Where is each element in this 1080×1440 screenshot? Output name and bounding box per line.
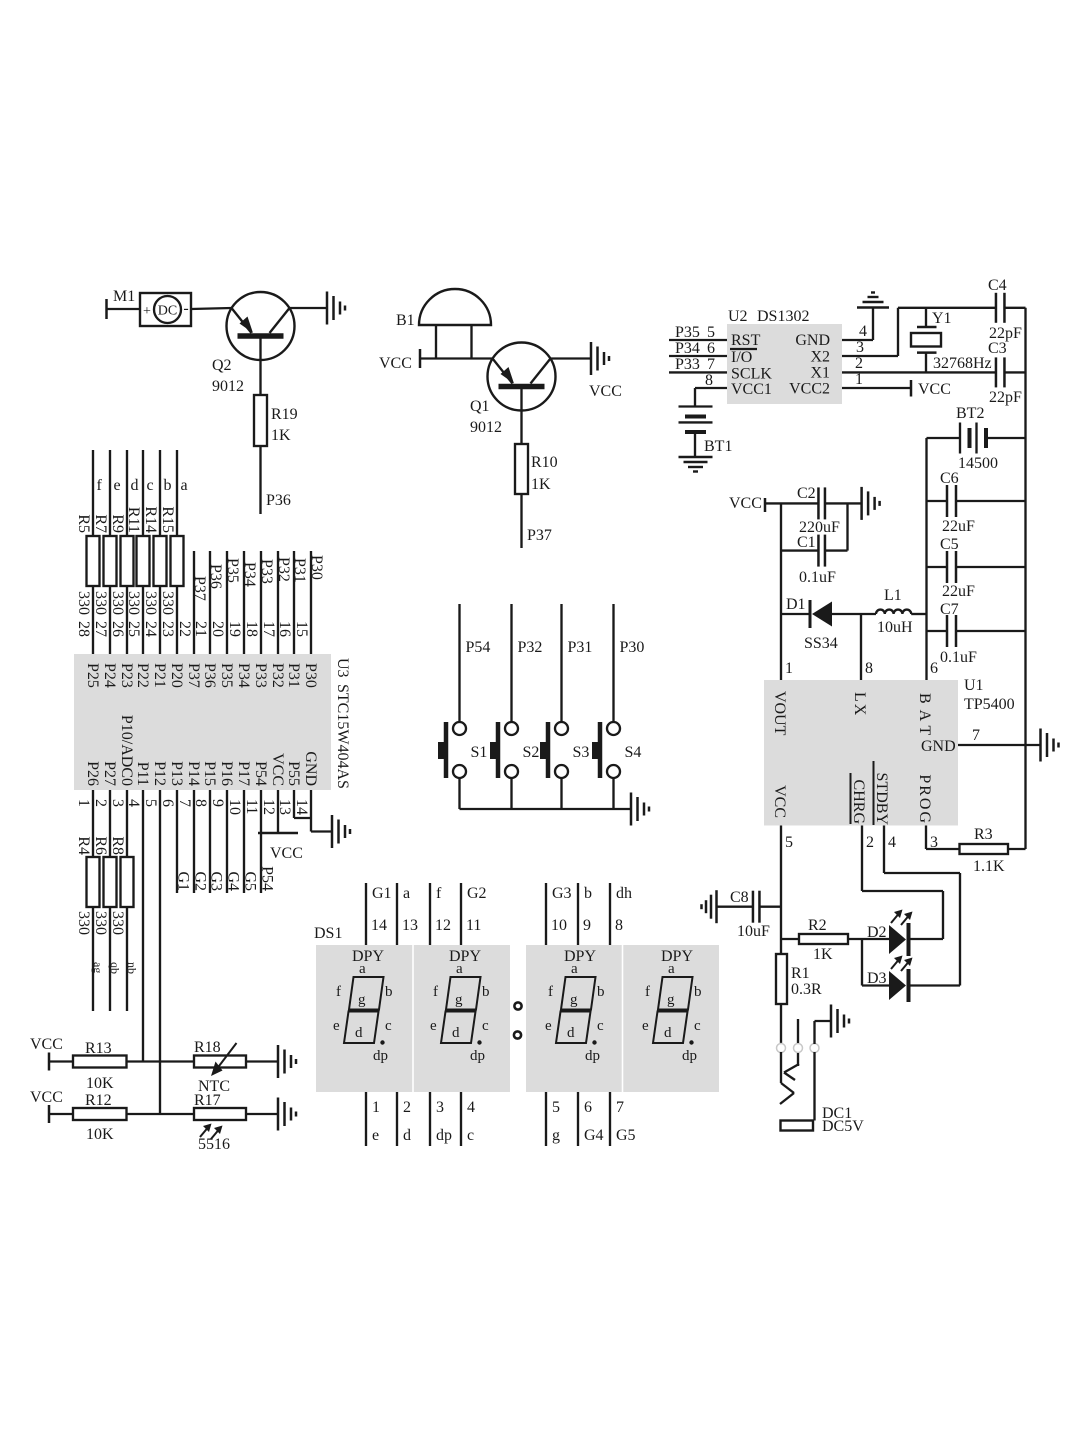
capacitor C6 22uF	[927, 470, 1026, 535]
U3 top pin 18 label P33	[243, 621, 269, 688]
svg-text:g: g	[455, 992, 463, 1008]
DC jack DC1 DC5V	[777, 1019, 865, 1135]
svg-text:VCC: VCC	[771, 785, 788, 818]
svg-text:G4: G4	[584, 1127, 604, 1144]
svg-text:R19: R19	[271, 406, 298, 423]
resistor R11 330 (segment c)	[125, 450, 154, 654]
svg-text:d: d	[131, 477, 139, 494]
svg-text:R6: R6	[92, 836, 109, 855]
VCC terminal pin 12	[258, 790, 303, 862]
resistor R7 330 (segment e)	[92, 450, 121, 654]
svg-text:28: 28	[75, 621, 92, 637]
motor M1	[107, 288, 192, 326]
svg-text:330: 330	[92, 911, 109, 935]
wire	[510, 777, 512, 809]
wire LX	[860, 614, 862, 680]
svg-text:6: 6	[930, 660, 938, 677]
svg-text:10K: 10K	[86, 1075, 114, 1092]
svg-text:STDBY: STDBY	[873, 773, 890, 826]
U3 top pin 21 label P36	[192, 621, 218, 688]
svg-text:G5: G5	[616, 1127, 636, 1144]
svg-text:BT2: BT2	[956, 405, 984, 422]
capacitor C5 22uF	[927, 536, 1026, 600]
svg-text:B1: B1	[396, 312, 415, 329]
svg-text:18: 18	[243, 621, 260, 637]
LED D2	[867, 910, 913, 957]
svg-text:330: 330	[92, 591, 109, 615]
svg-text:15: 15	[293, 621, 310, 637]
7-segment digit DPY4	[642, 948, 702, 1064]
svg-text:14: 14	[293, 799, 310, 815]
svg-text:11: 11	[243, 799, 260, 814]
VCC terminal	[30, 1089, 73, 1123]
ground	[290, 292, 346, 325]
svg-text:9012: 9012	[212, 378, 244, 395]
svg-text:P34: P34	[241, 562, 258, 587]
svg-text:VCC2: VCC2	[789, 381, 830, 398]
svg-text:P33: P33	[252, 663, 269, 688]
svg-text:9: 9	[209, 799, 226, 807]
transistor Q1	[470, 343, 556, 437]
svg-text:P33: P33	[258, 559, 275, 584]
wire pin 14	[311, 790, 332, 832]
7-segment digit DPY3	[545, 948, 605, 1064]
svg-text:P20: P20	[168, 663, 185, 688]
svg-text:M1: M1	[113, 288, 135, 305]
U3 top pin 23 label P20	[159, 621, 185, 688]
svg-text:4: 4	[859, 323, 867, 340]
svg-text:P54: P54	[466, 639, 491, 656]
svg-text:VCC1: VCC1	[731, 381, 772, 398]
colon dot lower	[514, 1031, 521, 1038]
svg-text:2: 2	[403, 1099, 411, 1116]
U3 top pin 24 label P21	[142, 621, 168, 688]
ground	[277, 1098, 280, 1131]
crystal Y1 32768Hz	[911, 308, 992, 373]
pin 5 RST net P35	[669, 324, 727, 341]
pin 5 VCC wire	[781, 826, 793, 955]
svg-text:a: a	[456, 961, 463, 977]
wire net P54	[460, 604, 491, 723]
svg-text:P55: P55	[285, 761, 302, 786]
svg-text:L1: L1	[884, 587, 902, 604]
svg-text:dh: dh	[616, 885, 632, 902]
svg-text:d: d	[452, 1025, 460, 1041]
svg-text:S1: S1	[471, 744, 488, 761]
svg-text:P15: P15	[201, 761, 218, 786]
DS1 pin 7 (G5)	[610, 1092, 636, 1146]
U3 bottom pin 3 label P10/ADC0	[109, 715, 135, 807]
svg-text:g: g	[552, 1127, 560, 1144]
ground	[860, 487, 863, 520]
transistor Q2	[212, 292, 295, 395]
DS1 pin 8 (dh)	[610, 883, 632, 945]
svg-text:3: 3	[109, 799, 126, 807]
svg-text:330: 330	[125, 591, 142, 615]
wire D2 anode to D3 anode	[862, 939, 889, 986]
wire net G4	[225, 790, 242, 893]
wire net G3	[208, 790, 225, 893]
DS1 pin 4 (c)	[461, 1092, 475, 1146]
svg-text:P31: P31	[568, 639, 593, 656]
DS1 pin 10 (G3)	[546, 883, 572, 945]
svg-text:C4: C4	[988, 277, 1007, 294]
wire net P30	[308, 551, 325, 654]
svg-text:P36: P36	[266, 492, 291, 509]
svg-text:G2: G2	[467, 885, 487, 902]
svg-text:qb: qb	[108, 962, 122, 974]
svg-text:Q2: Q2	[212, 357, 232, 374]
U3 bottom pin 4 label P11	[125, 762, 151, 807]
svg-text:R14: R14	[142, 506, 159, 533]
svg-text:dp: dp	[436, 1127, 452, 1144]
svg-text:P26: P26	[84, 761, 101, 786]
svg-text:6: 6	[159, 799, 176, 807]
wire node P37	[522, 494, 552, 548]
U3 bottom pin 7 label P14	[176, 761, 202, 807]
svg-text:R15: R15	[159, 506, 176, 533]
svg-text:R7: R7	[92, 514, 109, 533]
U3 top pin 22 label P37	[176, 621, 202, 688]
svg-text:DS1: DS1	[314, 925, 342, 942]
svg-text:VCC: VCC	[30, 1089, 63, 1106]
resistor R13 10K	[73, 1040, 127, 1092]
svg-text:P34: P34	[235, 663, 252, 688]
svg-text:R1: R1	[791, 965, 810, 982]
wire	[765, 502, 819, 504]
svg-text:S2: S2	[523, 744, 540, 761]
svg-text:ag: ag	[91, 962, 105, 973]
U3 top pin 16 label P31	[276, 621, 302, 688]
resistor R6 330	[92, 790, 122, 1011]
svg-text:P31: P31	[285, 663, 302, 688]
svg-text:P30: P30	[620, 639, 645, 656]
svg-text:R8: R8	[109, 836, 126, 855]
svg-text:P32: P32	[275, 557, 292, 582]
DS1 pin 13 (a)	[397, 883, 418, 945]
svg-text:D1: D1	[786, 596, 806, 613]
svg-text:c: c	[147, 477, 154, 494]
svg-text:R9: R9	[109, 514, 126, 533]
svg-text:+: +	[143, 304, 151, 319]
svg-text:a: a	[359, 961, 366, 977]
wire node P36	[261, 446, 291, 514]
resistor R3 1.1K	[960, 826, 1026, 875]
wire right rail	[1024, 308, 1026, 849]
inductor L1 10uH	[876, 587, 927, 636]
svg-text:VCC: VCC	[729, 495, 762, 512]
svg-text:22: 22	[176, 621, 193, 637]
svg-text:b: b	[584, 885, 592, 902]
svg-text:2: 2	[92, 799, 109, 807]
wire	[127, 1113, 195, 1115]
U3 bottom pin 13 label P55	[276, 761, 302, 815]
svg-text:BAT: BAT	[916, 693, 933, 741]
wire net P35	[224, 551, 241, 654]
svg-text:24: 24	[142, 621, 159, 637]
resistor R15 330 (segment a)	[159, 450, 188, 654]
svg-text:1.1K: 1.1K	[973, 858, 1005, 875]
VCC terminal	[379, 349, 420, 372]
ground	[630, 793, 633, 826]
U3 top pin 20 label P35	[209, 621, 235, 688]
svg-text:10K: 10K	[86, 1126, 114, 1143]
svg-text:22pF: 22pF	[989, 389, 1022, 406]
svg-text:C6: C6	[940, 470, 959, 487]
svg-text:c: c	[482, 1018, 489, 1034]
resistor R9 330 (segment d)	[109, 450, 139, 654]
DS1 pin 9 (b)	[578, 883, 592, 945]
svg-text:R3: R3	[974, 826, 993, 843]
svg-text:b: b	[164, 477, 172, 494]
svg-text:c: c	[694, 1018, 701, 1034]
svg-text:R18: R18	[194, 1039, 221, 1056]
svg-text:R17: R17	[194, 1092, 221, 1109]
svg-text:e: e	[333, 1018, 340, 1034]
svg-text:G3: G3	[208, 871, 225, 891]
svg-text:VCC: VCC	[270, 845, 303, 862]
svg-text:G3: G3	[552, 885, 572, 902]
svg-text:P30: P30	[302, 663, 319, 688]
wire	[127, 1060, 195, 1062]
U3 top pin 28 label P25	[75, 621, 101, 688]
pin 1 VCC2 wire	[842, 371, 911, 388]
U3 top pin 25 label P22	[125, 621, 151, 688]
IC U3 STC15W404AS	[74, 654, 351, 790]
svg-text:7: 7	[176, 799, 193, 807]
svg-text:D2: D2	[867, 924, 887, 941]
svg-text:P54: P54	[259, 866, 276, 891]
svg-text:8: 8	[705, 372, 713, 389]
svg-text:P36: P36	[207, 564, 224, 589]
svg-text:12: 12	[260, 799, 277, 815]
svg-text:0.3R: 0.3R	[791, 981, 822, 998]
svg-text:P35: P35	[224, 558, 241, 583]
IC U2 DS1302	[727, 308, 842, 404]
svg-text:CHRG: CHRG	[850, 780, 867, 825]
svg-text:P10/ADC0: P10/ADC0	[118, 715, 135, 786]
svg-text:2: 2	[866, 834, 874, 851]
wire net P33	[258, 551, 275, 654]
VCC terminal	[30, 1036, 73, 1071]
resistor R4 330	[75, 790, 105, 1011]
svg-text:VCC: VCC	[269, 753, 286, 786]
svg-text:DPY: DPY	[449, 948, 481, 965]
svg-text:R2: R2	[808, 917, 827, 934]
resistor R8 330	[109, 790, 139, 1011]
svg-text:P21: P21	[151, 663, 168, 688]
U3 bottom pin 14 label GND	[293, 751, 319, 815]
svg-text:LX: LX	[851, 692, 868, 717]
svg-text:VCC: VCC	[30, 1036, 63, 1053]
wire net P34	[241, 551, 258, 654]
svg-text:P34: P34	[675, 340, 700, 357]
svg-text:C8: C8	[730, 889, 749, 906]
svg-text:dp: dp	[373, 1048, 388, 1064]
svg-text:R4: R4	[75, 836, 92, 855]
svg-text:dp: dp	[585, 1048, 600, 1064]
DS1 pin 12 (f)	[430, 883, 451, 945]
U3 top pin 15 label P30	[293, 621, 319, 688]
svg-text:330: 330	[75, 911, 92, 935]
svg-text:DC5V: DC5V	[822, 1118, 864, 1135]
svg-text:0.1uF: 0.1uF	[799, 569, 836, 586]
svg-text:e: e	[642, 1018, 649, 1034]
svg-text:SCLK: SCLK	[731, 366, 772, 383]
svg-text:VCC: VCC	[918, 381, 951, 398]
svg-text:d: d	[355, 1025, 363, 1041]
svg-text:8: 8	[865, 660, 873, 677]
svg-text:e: e	[545, 1018, 552, 1034]
svg-text:3: 3	[436, 1099, 444, 1116]
svg-text:10uH: 10uH	[877, 619, 913, 636]
colon dot upper	[514, 1002, 521, 1009]
svg-text:SS34: SS34	[804, 635, 838, 652]
svg-text:23: 23	[159, 621, 176, 637]
pin 4 GND wire	[842, 308, 873, 341]
svg-text:7: 7	[972, 727, 980, 744]
svg-text:VCC: VCC	[379, 355, 412, 372]
wire pin 13	[294, 790, 311, 818]
svg-text:X1: X1	[810, 365, 830, 382]
svg-text:P25: P25	[84, 663, 101, 688]
wire	[560, 777, 562, 809]
svg-text:P27: P27	[101, 761, 118, 786]
svg-text:U3: U3	[334, 658, 351, 678]
ground	[715, 890, 718, 923]
svg-text:PROG: PROG	[916, 774, 933, 825]
svg-text:a: a	[181, 477, 188, 494]
wire to ground	[815, 1020, 832, 1022]
svg-text:5: 5	[552, 1099, 560, 1116]
switch S2	[490, 722, 539, 778]
svg-text:P12: P12	[151, 761, 168, 786]
svg-text:f: f	[336, 984, 341, 1000]
wire	[520, 411, 522, 446]
wire net G5	[242, 790, 259, 893]
svg-text:b: b	[597, 984, 605, 1000]
svg-text:a: a	[571, 961, 578, 977]
svg-text:RST: RST	[731, 332, 761, 349]
resistor R1 0.3R	[776, 954, 822, 1004]
svg-text:f: f	[548, 984, 553, 1000]
wire	[246, 1113, 278, 1115]
svg-text:3: 3	[930, 834, 938, 851]
wire P11 to R13	[142, 790, 144, 1062]
U3 bottom pin 1 label P26	[75, 761, 101, 807]
U3 bottom pin 5 label P12	[142, 761, 168, 807]
svg-text:C2: C2	[797, 485, 816, 502]
svg-text:7: 7	[616, 1099, 624, 1116]
svg-text:P54: P54	[252, 761, 269, 786]
svg-text:U2: U2	[728, 308, 748, 325]
svg-text:P35: P35	[675, 324, 700, 341]
svg-text:f: f	[97, 477, 103, 494]
svg-text:DC: DC	[158, 304, 177, 319]
svg-text:P11: P11	[134, 762, 151, 786]
svg-text:G5: G5	[242, 871, 259, 891]
7-segment digit DPY2	[430, 948, 490, 1064]
svg-text:20: 20	[209, 621, 226, 637]
svg-text:nb: nb	[125, 962, 139, 974]
svg-text:19: 19	[226, 621, 243, 637]
wire net G1	[175, 790, 192, 893]
svg-text:4: 4	[467, 1099, 475, 1116]
svg-text:c: c	[467, 1127, 474, 1144]
svg-text:Q1: Q1	[470, 398, 490, 415]
svg-text:7: 7	[707, 356, 715, 373]
wire	[780, 1004, 782, 1044]
svg-text:5: 5	[707, 324, 715, 341]
svg-text:c: c	[385, 1018, 392, 1034]
U3 bottom pin 11 label P54	[243, 761, 269, 814]
wire P12 to R12	[159, 790, 161, 1114]
DS1 pin 2 (d)	[397, 1092, 411, 1146]
svg-text:1: 1	[372, 1099, 380, 1116]
wire net P32	[512, 604, 543, 723]
svg-text:P37: P37	[185, 663, 202, 688]
photoresistor R17 5516	[194, 1092, 246, 1153]
svg-text:C3: C3	[988, 340, 1007, 357]
wire net P36	[207, 551, 224, 654]
svg-text:f: f	[645, 984, 650, 1000]
DS1 pin 1 (e)	[366, 1092, 380, 1146]
ground	[331, 815, 334, 848]
svg-text:e: e	[372, 1127, 379, 1144]
switch S3	[540, 722, 589, 778]
buzzer B1	[396, 289, 491, 359]
svg-text:G1: G1	[175, 871, 192, 891]
svg-text:Y1: Y1	[932, 310, 952, 327]
svg-text:S3: S3	[573, 744, 590, 761]
svg-text:P13: P13	[168, 761, 185, 786]
battery BT1	[679, 407, 733, 457]
svg-text:g: g	[570, 992, 578, 1008]
svg-text:P30: P30	[308, 555, 325, 580]
pin 7 GND wire	[958, 727, 1041, 745]
svg-text:DPY: DPY	[564, 948, 596, 965]
wire	[191, 308, 232, 309]
battery BT2 14500	[927, 405, 1026, 472]
U3 bottom pin 2 label P27	[92, 761, 118, 807]
svg-text:32768Hz: 32768Hz	[933, 355, 992, 372]
svg-text:dp: dp	[682, 1048, 697, 1064]
svg-text:VOUT: VOUT	[771, 691, 788, 736]
svg-text:X2: X2	[810, 349, 830, 366]
thermistor R18 NTC	[194, 1039, 246, 1095]
svg-text:TP5400: TP5400	[964, 696, 1015, 713]
resistor R2 1K	[781, 917, 889, 963]
svg-text:I/O: I/O	[731, 349, 752, 366]
svg-text:0.1uF: 0.1uF	[940, 649, 977, 666]
ground	[551, 342, 610, 375]
svg-text:g: g	[358, 992, 366, 1008]
wire net P54	[259, 790, 276, 893]
capacitor C8 10uF	[717, 889, 782, 940]
svg-text:P17: P17	[235, 761, 252, 786]
U3 top pin 17 label P32	[260, 621, 286, 688]
svg-text:4: 4	[888, 834, 896, 851]
VCC terminal	[911, 380, 951, 398]
svg-text:14500: 14500	[958, 455, 998, 472]
svg-text:330: 330	[109, 911, 126, 935]
svg-text:GND: GND	[921, 738, 956, 755]
svg-text:26: 26	[109, 621, 126, 637]
block separators	[413, 945, 623, 1092]
svg-text:b: b	[694, 984, 702, 1000]
display block 2	[526, 945, 719, 1092]
svg-text:P36: P36	[201, 663, 218, 688]
